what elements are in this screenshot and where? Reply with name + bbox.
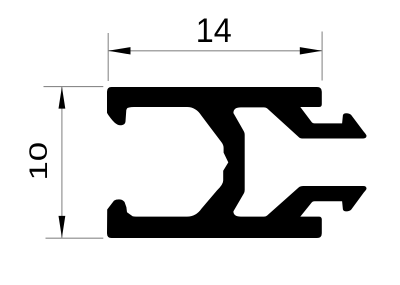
dim 14: left extension line bbox=[107, 33, 109, 81]
dim 10: bottom arrowhead bbox=[59, 216, 66, 238]
dim 10: dimension line bbox=[61, 87, 63, 239]
dim 10: top arrowhead bbox=[59, 87, 66, 109]
dim 14: dimension line bbox=[108, 50, 322, 52]
dim 14: right extension line bbox=[321, 32, 323, 81]
dim 10: bottom extension line bbox=[46, 237, 104, 239]
svg-text:14: 14 bbox=[196, 12, 232, 50]
dim 14: right arrowhead bbox=[300, 47, 322, 54]
svg-text:10: 10 bbox=[25, 142, 52, 181]
dim 14: left arrowhead bbox=[108, 47, 130, 54]
extrusion profile cross-section bbox=[107, 87, 367, 238]
dim 10: top extension line bbox=[44, 86, 104, 88]
